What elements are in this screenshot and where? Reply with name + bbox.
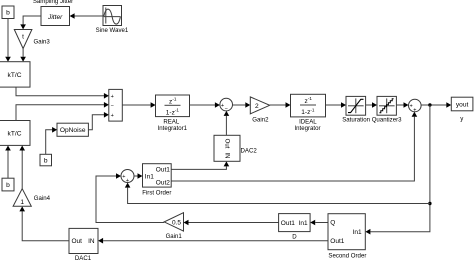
svg-text:DAC1: DAC1 (75, 255, 92, 260)
wire Second Order Out1 -> DAC1 (98, 238, 328, 244)
block D (279, 214, 311, 241)
wire b1 -> kT/C 1 (5, 19, 11, 62)
sum Sum1 (109, 89, 123, 121)
svg-text:Out: Out (72, 238, 83, 245)
wire Gain2 -> IDEAL Integrator (270, 102, 291, 108)
wire Sum3 -> yout with junction (421, 102, 451, 108)
svg-text:-1: -1 (172, 97, 177, 102)
svg-text:Integrator: Integrator (294, 125, 320, 132)
svg-text:-1: -1 (308, 96, 313, 101)
sink yout (451, 97, 473, 122)
block IDEAL Integrator (291, 94, 326, 132)
block DAC2 (214, 135, 257, 161)
svg-text:Q: Q (330, 220, 335, 227)
wire Sum1 -> REAL Integrator1 (122, 102, 155, 108)
svg-text:1-z: 1-z (166, 109, 175, 116)
svg-text:kT/C: kT/C (8, 72, 22, 79)
constant b1 (2, 6, 14, 19)
svg-text:Second Order: Second Order (328, 253, 366, 260)
block OpNoise (57, 123, 88, 136)
svg-text:Out1: Out1 (156, 167, 170, 174)
wire feedback -> Sum2 bottom (125, 183, 430, 204)
svg-text:Sine Wave1: Sine Wave1 (96, 27, 129, 34)
gain Gain4 (13, 189, 51, 207)
wire Second Order Q -> D In1 (310, 220, 328, 226)
block Jitter (Sampling Jitter) (33, 0, 73, 25)
wire junction column -> Second Order In1 (365, 105, 431, 235)
svg-text:Out1: Out1 (281, 220, 295, 227)
wire Gain1 -> Sum2 left (96, 173, 164, 222)
gain Gain2 (250, 97, 269, 124)
svg-text:+: + (111, 113, 114, 119)
wire sum -> Gain2 (233, 102, 251, 108)
svg-text:1-z: 1-z (301, 109, 310, 116)
gain Gain1 (164, 213, 183, 240)
wire DAC1 -> Gain4 (19, 206, 69, 240)
block DAC1 (69, 228, 98, 260)
wire IDEAL Integrator -> Saturation (326, 102, 347, 108)
svg-text:b: b (6, 182, 10, 189)
svg-text:D: D (292, 233, 297, 240)
svg-text:b: b (6, 10, 10, 17)
wire OpNoise -> Sum1 (88, 112, 109, 130)
svg-text:kT/C: kT/C (8, 131, 22, 138)
wire Gain4 -> kT/C 2 (19, 146, 25, 189)
wire Jitter -> Gain3 (20, 16, 41, 29)
svg-text:Saturation: Saturation (342, 117, 370, 124)
svg-text:Quantizer3: Quantizer3 (372, 117, 402, 124)
block Second Order (328, 214, 366, 260)
svg-text:1: 1 (20, 199, 24, 206)
svg-text:2: 2 (255, 103, 259, 110)
svg-text:IN: IN (88, 238, 95, 245)
svg-text:Out: Out (224, 139, 230, 149)
wire kT/C 2 -> Sum1 (16, 102, 109, 121)
wire Sine Wave1 -> Jitter (70, 13, 103, 19)
wire First Order Out1 -> DAC2 (171, 161, 229, 169)
svg-text:-1: -1 (175, 108, 180, 113)
svg-text:Integrator1: Integrator1 (158, 125, 188, 132)
svg-text:t: t (22, 34, 24, 41)
wire b3 -> kT/C 2 (5, 146, 11, 179)
svg-text:In1: In1 (145, 173, 154, 180)
wire Sum2 -> First Order (134, 173, 143, 179)
svg-text:DAC2: DAC2 (241, 147, 258, 154)
wire DAC2 -> sum circle bottom (224, 111, 230, 135)
svg-text:+: + (413, 107, 416, 113)
wire Quantizer3 -> Sum3 (396, 102, 408, 108)
svg-text:First Order: First Order (142, 190, 171, 197)
svg-text:In1: In1 (299, 220, 308, 227)
svg-text:Sampling Jitter: Sampling Jitter (33, 0, 73, 5)
wire REAL Integrator1 -> Sum (circle) (190, 102, 220, 108)
svg-text:yout: yout (456, 102, 469, 109)
source Sine Wave1 (96, 6, 129, 34)
svg-text:Gain3: Gain3 (34, 38, 51, 45)
block Saturation (342, 96, 370, 123)
svg-text:+: + (126, 178, 129, 184)
svg-text:IN: IN (224, 153, 230, 159)
svg-text:Gain2: Gain2 (252, 116, 269, 123)
constant b2 (40, 154, 52, 166)
svg-text:-1: -1 (310, 107, 315, 112)
wire Saturation -> Quantizer3 (366, 102, 377, 108)
constant b3 (2, 178, 14, 191)
block First Order (142, 164, 171, 197)
gain Gain3 (14, 30, 50, 49)
sum circle Sum3 (409, 99, 422, 113)
sum circle after REAL integrator (220, 98, 233, 112)
wire b2 -> OpNoise (46, 127, 57, 154)
svg-text:Gain4: Gain4 (34, 195, 51, 202)
svg-text:+: + (111, 94, 114, 100)
wire kT/C 1 -> Sum1 (16, 87, 109, 99)
svg-text:Gain1: Gain1 (166, 233, 183, 240)
svg-text:−: − (111, 103, 114, 109)
svg-text:Out1: Out1 (330, 238, 344, 245)
svg-text:Jitter: Jitter (47, 14, 63, 21)
wire Gain3 -> kT/C 1 (20, 49, 26, 62)
block Quantizer3 (372, 96, 402, 123)
sum circle Sum2 (121, 170, 134, 184)
wire First Order Out2 -> Sum3 bottom (171, 112, 417, 181)
svg-text:In1: In1 (353, 229, 362, 236)
block kT/C 2 (0, 121, 30, 146)
svg-text:OpNoise: OpNoise (60, 127, 86, 134)
wire D Out1 -> Gain1 (184, 220, 279, 226)
svg-text:b: b (44, 158, 48, 165)
svg-text:Out2: Out2 (156, 179, 170, 186)
block kT/C 1 (0, 62, 30, 87)
svg-text:0.5: 0.5 (172, 220, 181, 227)
block REAL Integrator1 (156, 95, 190, 132)
